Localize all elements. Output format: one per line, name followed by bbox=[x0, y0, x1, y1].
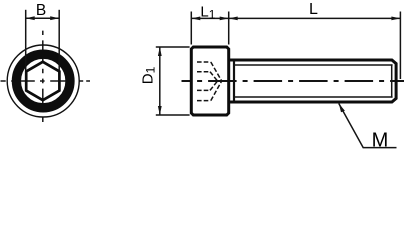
dimension B extension lines bbox=[26, 10, 60, 71]
thread start line bbox=[233, 61, 235, 102]
thread root line top bbox=[234, 64, 393, 66]
dimension L extension line (right) bbox=[399, 12, 401, 80]
dimension D1 extension lines bbox=[156, 47, 190, 115]
leader arrow to thread (M) bbox=[339, 104, 397, 148]
side view axis centerline bbox=[182, 80, 405, 82]
hex socket (front view hexagon) bbox=[26, 62, 59, 100]
dimension B line with arrowheads bbox=[26, 16, 60, 20]
hex socket hidden line lower inner bbox=[197, 81, 218, 90]
end chamfer line bbox=[391, 64, 393, 97]
svg-text:M: M bbox=[372, 130, 389, 152]
svg-text:L: L bbox=[309, 1, 318, 18]
front view vertical centerline bbox=[42, 31, 44, 122]
hex socket hidden line upper outer bbox=[197, 62, 222, 81]
dimension L1 extension lines bbox=[191, 12, 228, 45]
svg-text:B: B bbox=[36, 2, 46, 19]
thread root line bottom bbox=[234, 96, 393, 98]
screw head (side view) bbox=[191, 47, 228, 115]
head chamfer ring (thick annulus, front view) bbox=[16, 54, 70, 108]
hex socket hidden line lower outer bbox=[197, 81, 222, 101]
hex socket hidden line upper inner bbox=[197, 72, 218, 81]
dimension D1 line with arrowheads bbox=[158, 47, 162, 115]
dimension L1 line with arrowheads bbox=[191, 17, 228, 21]
front view horizontal centerline bbox=[1, 80, 91, 82]
shaft outline (side view) bbox=[229, 60, 396, 102]
head outer circle (front view) bbox=[7, 45, 79, 117]
dimension L line with arrowheads bbox=[229, 17, 401, 21]
